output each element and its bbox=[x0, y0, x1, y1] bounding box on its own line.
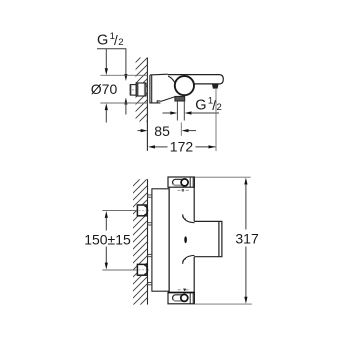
spout body (horizontal, top edge + rounded tip) bbox=[168, 75, 224, 84]
volume scale ticks bbox=[178, 289, 189, 291]
svg-text:317: 317 bbox=[235, 231, 259, 247]
dimension 172 bbox=[148, 89, 216, 155]
main body column bbox=[169, 187, 194, 292]
label G 1/2 (top left) bbox=[97, 31, 123, 49]
svg-text:Ø70: Ø70 bbox=[91, 81, 118, 97]
dimension Ø70: dimension line and arrows bbox=[105, 49, 107, 69]
temperature scale ticks bbox=[178, 189, 189, 191]
svg-text:G: G bbox=[97, 32, 108, 48]
outlet collar below body bbox=[175, 96, 185, 101]
aerator tab under spout tip bbox=[212, 84, 219, 89]
dimension 85 bbox=[138, 123, 197, 139]
spout root fillet (upper) bbox=[183, 214, 195, 222]
wall (hatched section, top view) bbox=[128, 46, 152, 140]
outlet pipe (down) bbox=[177, 101, 184, 121]
union hex nut bbox=[136, 83, 147, 96]
thermostat handle (circle, side view) bbox=[175, 76, 194, 95]
wall (hatched section, bottom view) bbox=[126, 167, 152, 319]
connector nubs wall to plate bbox=[148, 195, 152, 285]
wall surface line (bottom view) bbox=[147, 179, 149, 304]
label G 1/2 (lower, at outlet) bbox=[195, 96, 221, 114]
svg-text:85: 85 bbox=[154, 123, 170, 139]
bottom end cap bbox=[168, 292, 194, 303]
dimension 150±15 bbox=[84, 211, 137, 271]
spout root fillet (lower) bbox=[183, 255, 195, 263]
wall surface line (top view) bbox=[146, 58, 148, 151]
svg-text:150±15: 150±15 bbox=[84, 231, 131, 247]
svg-text:2: 2 bbox=[118, 37, 123, 48]
dimension Ø70: extension lines bbox=[100, 74, 147, 76]
leader for lower G 1/2 with arrows at pipe bbox=[163, 112, 171, 114]
inlet union (top) bbox=[137, 205, 147, 216]
escutcheon cover (side view cone) bbox=[150, 74, 175, 103]
svg-text:G: G bbox=[195, 97, 206, 113]
spout (plan view, projecting right) bbox=[194, 221, 222, 256]
mounting plate bbox=[152, 189, 169, 291]
inlet union (bottom) bbox=[137, 264, 147, 275]
svg-text:2: 2 bbox=[217, 102, 222, 113]
union pipe stub (in wall) bbox=[130, 85, 137, 96]
economy button mark bbox=[184, 236, 187, 243]
dimension 317 bbox=[195, 177, 259, 304]
leader line under G 1/2 bbox=[97, 49, 126, 75]
svg-text:172: 172 bbox=[170, 139, 194, 155]
arrow up to union bottom bbox=[124, 98, 127, 105]
arrow down to union top bbox=[124, 74, 127, 81]
top end cap bbox=[168, 177, 194, 187]
